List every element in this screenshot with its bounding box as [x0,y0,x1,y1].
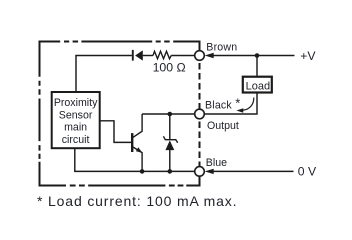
svg-text:* Load current: 100 mA max.: * Load current: 100 mA max. [37,193,237,209]
svg-text:Load: Load [246,81,270,93]
svg-text:main: main [64,122,87,134]
zener diode D2: cathode bar with bent tails [163,136,177,142]
svg-text:100 Ω: 100 Ω [153,61,186,75]
wire: box top up and right to diode [76,56,132,93]
wire: +V line down to load [256,56,258,76]
transistor Q1 (NPN): base bar [131,133,133,152]
sensor enclosure dashed border: right edge upper solid stub [199,41,201,51]
svg-text:Proximity: Proximity [54,97,98,109]
load box [243,77,272,93]
wire: base drive from box to transistor [100,121,132,143]
sensor enclosure dashed border: left edge [39,41,41,187]
transistor Q1: collector lead [133,114,142,137]
svg-text:Sensor: Sensor [59,109,93,121]
wire: +V line into Brown terminal [213,55,295,57]
sensor enclosure dashed border: right edge lower solid stub [199,176,201,186]
terminal Black [195,109,205,119]
sensor enclosure dashed border: right edge Brown-to-Black dashes [199,60,201,109]
junction dot: emitter to 0V rail [140,169,145,174]
transistor Q1: emitter lead [133,147,142,171]
arrowhead on 0V line [205,169,214,174]
svg-text:circuit: circuit [62,134,90,146]
zener diode D2: anode triangle [165,140,174,150]
svg-text:Black: Black [205,99,232,111]
junction dot: load tap on +V line [255,53,260,58]
sensor enclosure dashed border: right edge Black-to-Blue dashes [199,119,201,166]
wire: box bottom down and right along inner 0V rail [75,148,195,171]
sensor enclosure dashed border: top edge [39,41,200,43]
wire: diode to resistor [143,55,153,57]
svg-text:Brown: Brown [206,42,237,54]
terminal Blue [195,167,205,177]
zener diode D2: vertical leads [169,114,171,171]
arrowhead on +V line [205,53,214,58]
junction dot: zener to collector rail [168,112,173,117]
sensor enclosure dashed border: bottom edge [39,185,201,187]
resistor R1 100 ohm zigzag [153,51,171,59]
svg-text:*: * [235,96,240,111]
junction dot: zener to 0V rail [168,169,173,174]
diode D1 (cathode bar + left-pointing triangle) [133,50,143,61]
wire: resistor to Brown terminal [171,55,195,57]
svg-text:0 V: 0 V [298,165,317,179]
wire: load down then left to Black terminal [204,93,257,114]
terminal Brown [195,51,205,61]
svg-text:Blue: Blue [206,157,227,169]
label Proximity Sensor main circuit [54,97,98,146]
svg-text:Output: Output [207,120,239,132]
annotation curved arrow for asterisk note [236,98,253,113]
svg-text:+V: +V [300,49,316,63]
wire: 0V line into Blue terminal [213,170,294,172]
transistor Q1: emitter arrow [136,147,142,153]
proximity sensor main circuit box U1 [52,92,100,148]
wire: collector rail to Black terminal [142,113,195,115]
